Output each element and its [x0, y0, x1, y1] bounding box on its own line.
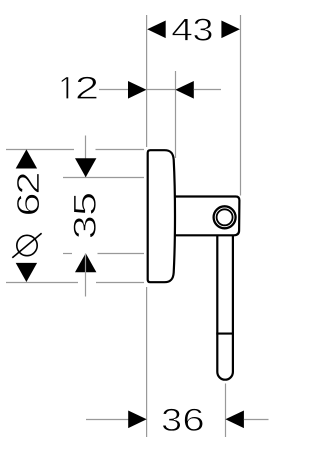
arm	[170, 197, 239, 236]
dimension 62 label (rotated)	[17, 194, 40, 214]
dimension 43 right arrow	[221, 21, 240, 39]
dimension 35 line below	[85, 254, 87, 297]
dimension 43 left arrow	[147, 21, 166, 39]
dimension 36 label	[163, 408, 181, 431]
dimension 62 bottom arrow	[16, 263, 37, 282]
extension line horizontal plate bottom	[6, 282, 78, 284]
dimension 12 left arrow	[128, 81, 147, 99]
dimension 36 leader left	[86, 419, 130, 421]
wall plate	[148, 150, 175, 282]
dimension 36 left arrow	[128, 411, 147, 429]
dimension 12 leader left	[99, 89, 129, 91]
extension line horizontal 35-top	[63, 177, 144, 179]
extension line horizontal plate top	[6, 149, 74, 151]
dimension 35 top arrow	[75, 158, 96, 177]
extension line left vertical top (wall face)	[146, 15, 148, 147]
diameter symbol	[17, 235, 37, 255]
rod seam line	[216, 333, 234, 335]
screw outer circle	[214, 206, 236, 228]
dimension 62 top arrow	[16, 149, 37, 168]
holder rod	[217, 230, 233, 380]
dimension 36 leader right	[244, 419, 269, 421]
dimension 35 bottom arrow	[75, 253, 96, 272]
dimension 12 right arrow	[175, 81, 194, 99]
dimension 36 right arrow	[225, 411, 244, 429]
extension line right vertical top (arm outer face)	[240, 15, 242, 196]
extension line left vertical bottom (wall face)	[146, 287, 148, 437]
dimension 43 label	[172, 19, 192, 41]
extension line plate front face	[175, 71, 177, 158]
extension line rod axis bottom	[225, 384, 227, 438]
dimension 12 label	[61, 77, 68, 99]
dimension 12 line between extension lines	[147, 89, 176, 91]
dimension 35 line above	[85, 136, 87, 178]
dimension 12 leader right	[194, 89, 221, 91]
screw inner circle	[217, 209, 233, 225]
extension line horizontal 35-bottom	[63, 253, 72, 255]
dimension 35 label (rotated)	[73, 217, 96, 237]
